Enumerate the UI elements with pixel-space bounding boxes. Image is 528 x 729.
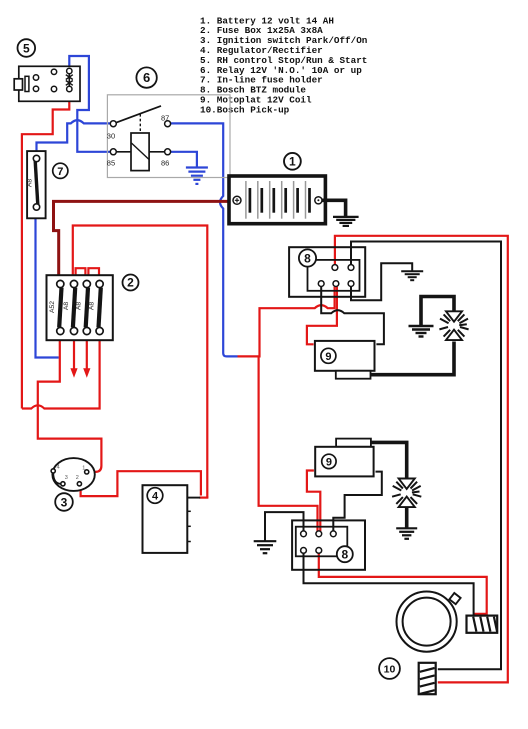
label circle 6 bbox=[136, 67, 156, 87]
wire red: fuse3 output arrow bbox=[86, 334, 88, 369]
BTZ module U8 top inner box bbox=[308, 260, 360, 291]
wire red: RH control (5) stop/run down left side to fuse4 line bbox=[22, 92, 69, 409]
svg-text:4: 4 bbox=[57, 464, 60, 470]
label circle 5 bbox=[18, 39, 36, 57]
BTZ module U8 top terminals bbox=[318, 265, 354, 287]
wire blue: relay terminal 86 to ground bbox=[171, 152, 197, 167]
pick-up bottom coil winding bbox=[419, 663, 436, 694]
spark plug FL2 spark rays bbox=[392, 482, 421, 504]
relay K6 85-86 internal line bbox=[114, 151, 166, 153]
ground (spark plug top) bbox=[409, 326, 434, 337]
wire red: main switched feed, regulator junction up and over to fuse2 top bbox=[73, 226, 208, 498]
svg-text:85: 85 bbox=[107, 158, 115, 167]
svg-text:30: 30 bbox=[107, 132, 115, 141]
svg-text:1: 1 bbox=[289, 155, 296, 169]
wire red: bridge fuse2 top to fuse3 top bbox=[76, 268, 86, 281]
svg-text:10: 10 bbox=[384, 663, 396, 675]
svg-text:3: 3 bbox=[65, 475, 68, 481]
RH control U5 push-switch symbol bbox=[68, 74, 70, 86]
wire red: ignition terminal 2 to regulator junction bbox=[80, 471, 201, 496]
battery + terminal bbox=[233, 196, 241, 204]
pick-up M10 rotor inner bbox=[403, 598, 451, 646]
svg-text:2: 2 bbox=[127, 276, 134, 290]
spark plug FL2 (bottom) gap triangles bbox=[399, 479, 415, 508]
relay K6 actuator dashed link bbox=[139, 114, 141, 133]
ground (battery) bbox=[333, 217, 359, 226]
relay K6 coil bbox=[131, 133, 149, 171]
svg-text:10.Bosch Pick-up: 10.Bosch Pick-up bbox=[200, 104, 290, 115]
svg-text:87: 87 bbox=[161, 113, 169, 122]
wire red: BTZ module (8 top) top-center right-side run to pick-up bottom coil bbox=[335, 236, 508, 683]
wire red: bridge fuse3 top to fuse4 top bbox=[88, 268, 99, 281]
wire red: bottom BTZ module top-middle to coil 9 bottom left bbox=[307, 471, 320, 532]
svg-text:5: 5 bbox=[23, 41, 30, 55]
wire blue: RH control (5) to relay terminal 85 bbox=[69, 56, 110, 152]
wire black: bottom BTZ module top-left to ground bbox=[265, 512, 304, 541]
wire red: regulator junction horizontal piece bbox=[199, 497, 208, 499]
wire black: BTZ module (8 top) bottom-right to ground bbox=[351, 263, 412, 300]
wire black: bottom BTZ module bottom-left to pick-up right coil bbox=[304, 553, 474, 614]
wire black thick: coil 9 top HT lead to spark plug bbox=[370, 342, 454, 375]
RH control U5 contact circles bbox=[33, 68, 72, 91]
ignition coil U9 bottom body bbox=[315, 447, 373, 477]
ignition switch U3 body bbox=[52, 458, 94, 491]
RH control U5 body bbox=[14, 66, 80, 101]
svg-text:7: 7 bbox=[57, 166, 63, 178]
svg-text:1: 1 bbox=[82, 465, 85, 471]
battery plates bbox=[246, 181, 306, 219]
svg-text:9: 9 bbox=[326, 457, 332, 469]
fuse box U2 body bbox=[47, 275, 113, 340]
wire red: junction J down to bottom BTZ module (8) top-middle terminal bbox=[259, 356, 318, 531]
relay K6 terminals bbox=[110, 121, 170, 155]
wire black: BTZ module (8 top) top-right right-side run to pick-up bottom coil bbox=[351, 242, 501, 670]
svg-text:A8: A8 bbox=[88, 302, 95, 311]
wire black thick: spark plug bottom to ground bbox=[405, 507, 409, 527]
svg-text:2: 2 bbox=[76, 475, 79, 481]
ignition coil U9 top HT tower bbox=[336, 371, 371, 379]
fuse F2 8A bbox=[73, 288, 75, 328]
fuse F3 8A bbox=[86, 288, 88, 328]
fuse F1 25A bbox=[59, 288, 61, 328]
BTZ module U8 bottom inner box bbox=[296, 527, 348, 557]
in-line fuse element bbox=[35, 161, 38, 205]
pick-up M10 rotor outer bbox=[397, 592, 457, 652]
legend text bbox=[200, 15, 368, 115]
svg-text:A52: A52 bbox=[49, 301, 56, 313]
wire black: bottom BTZ module top-right to coil 9 bottom right bbox=[333, 472, 382, 531]
label circle 4 bbox=[147, 488, 163, 504]
label circle 8 (top module) bbox=[299, 249, 316, 266]
wire red: bottom BTZ module bottom-middle to pick-up right coil bbox=[319, 553, 487, 614]
wire red: junction J to BTZ module (8 top) bottom-center terminal (hop over black) bbox=[238, 287, 335, 357]
BTZ module U8 top outer box bbox=[289, 247, 365, 297]
wire red: fuse1 bottom down to ignition terminal 1 bbox=[38, 334, 102, 472]
in-line fuse holder U7 body bbox=[27, 151, 45, 218]
ground (blue, relay 86) bbox=[186, 168, 208, 184]
regulator terminal stub bbox=[187, 497, 200, 499]
wire blue: fuse1 bottom to in-line fuse (7) bottom bbox=[36, 210, 59, 357]
label circle 7 bbox=[53, 163, 68, 178]
wire dark red: battery + to fuse1 top bbox=[54, 201, 234, 280]
label circle 9 (bottom coil) bbox=[322, 454, 336, 468]
svg-text:86: 86 bbox=[161, 158, 169, 167]
relay K6 outline box bbox=[107, 95, 230, 178]
relay K6 switch arm bbox=[113, 106, 161, 124]
wire black thick: spark plug top electrode to ground bbox=[421, 297, 454, 326]
label circle 2 bbox=[123, 275, 139, 291]
pick-up rotor tab bbox=[449, 593, 460, 604]
svg-text:A8: A8 bbox=[76, 302, 83, 311]
svg-text:8: 8 bbox=[341, 547, 348, 561]
svg-text:8: 8 bbox=[304, 251, 311, 265]
svg-text:A8: A8 bbox=[63, 302, 70, 311]
spark plug FL1 spark rays bbox=[439, 314, 468, 336]
wire red: fuse4 bottom left to RH control wire (hop over fuse1 wire) bbox=[22, 334, 100, 408]
svg-text:A8: A8 bbox=[27, 179, 34, 188]
svg-text:4: 4 bbox=[152, 491, 159, 503]
ground (spark plug bottom) bbox=[396, 528, 417, 539]
ground (BTZ module 8 top) bbox=[401, 271, 423, 280]
label circle 1 bbox=[284, 153, 301, 170]
wire red: BTZ module (8 top) bottom-center to coil 9 top left bbox=[307, 287, 337, 345]
ignition terminals bbox=[51, 469, 89, 486]
wire blue: relay terminal 87 down to junction J (hop over battery wire) bbox=[171, 123, 238, 356]
wire black: battery - to ground bbox=[322, 200, 346, 216]
battery B1 body bbox=[229, 176, 325, 224]
ignition jumper 4-3 (park) bbox=[53, 473, 61, 484]
ground (bottom BTZ module) bbox=[254, 541, 277, 553]
wire red: ignition jumper terminal 1 to terminal 2 bbox=[81, 474, 87, 484]
fuse F4 8A bbox=[99, 288, 101, 328]
battery - terminal bbox=[315, 197, 322, 204]
svg-text:9: 9 bbox=[325, 351, 331, 363]
label circle 9 (top coil) bbox=[321, 348, 336, 363]
BTZ module U8 bottom terminals bbox=[301, 531, 337, 553]
wire blue: in-line fuse (7) top to relay terminal 30 (hop over vertical) bbox=[37, 120, 111, 155]
pick-up right coil winding bbox=[467, 616, 498, 633]
svg-text:6: 6 bbox=[143, 70, 150, 85]
BTZ module U8 bottom outer box bbox=[292, 520, 365, 569]
spark plug FL1 (top) gap triangles bbox=[446, 311, 462, 340]
regulator U4 body bbox=[143, 485, 188, 553]
label circle 3 bbox=[55, 493, 73, 511]
wire black: BTZ module (8 top) bottom-left to coil 9 top right (hop over red) bbox=[321, 287, 384, 345]
svg-text:3: 3 bbox=[61, 495, 68, 509]
label circle 10 bbox=[379, 658, 400, 679]
label circle 8 (bottom module) bbox=[337, 546, 353, 562]
regulator side marks bbox=[187, 511, 190, 541]
wire red: fuse2 output arrow bbox=[73, 334, 75, 369]
ignition coil U9 top body bbox=[315, 341, 375, 371]
wire black thick: coil 9 bottom HT lead to spark plug bbox=[371, 442, 407, 479]
ignition coil U9 bottom HT tower bbox=[336, 439, 371, 447]
